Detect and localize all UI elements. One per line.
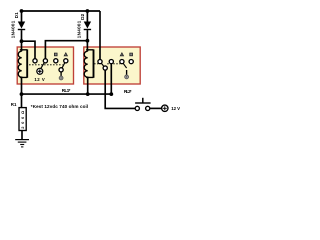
- terminal RL2: [125, 75, 129, 79]
- node R1 top: [20, 92, 24, 96]
- svg-text:RL1*: RL1*: [62, 88, 71, 93]
- wire resistor to ground: [21, 131, 23, 140]
- wire D2 cathode to coil RL2: [86, 30, 88, 50]
- contact circle RL1 common: [59, 68, 63, 72]
- diode D2: [84, 22, 91, 31]
- terminal RL1: [59, 76, 63, 80]
- svg-text:R1: R1: [11, 102, 17, 107]
- dashed linkage RL1: [29, 64, 63, 66]
- wire D2 anode stem: [86, 11, 88, 22]
- contact circle RL1 c1: [33, 59, 37, 63]
- contact circle RL1 NC: [54, 59, 58, 63]
- contact circle RL2 D: [129, 60, 133, 64]
- node coil RL2 bus: [86, 92, 90, 96]
- glyph triangle RL1: [64, 53, 67, 56]
- push button S1: [135, 98, 151, 111]
- wire branch D2 node to RL1 contact c2: [45, 41, 87, 59]
- svg-text:D1: D1: [14, 12, 20, 18]
- svg-text:RL2*: RL2*: [124, 89, 132, 94]
- contact circle RL1 NO: [64, 59, 68, 63]
- wire coil RL2 bottom to bus: [87, 77, 89, 94]
- contact circle RL2 C: [120, 60, 124, 64]
- glyph square RL1: [54, 53, 57, 56]
- contact circle RL2 B: [109, 60, 113, 64]
- coil RL2: [84, 49, 93, 77]
- 12V supply terminal: [162, 105, 168, 111]
- wire RL2 common1 to push button: [105, 70, 135, 108]
- glyph triangle RL2: [120, 53, 123, 56]
- svg-text:12 V: 12 V: [34, 77, 45, 82]
- glyph square RL2: [130, 53, 133, 56]
- relay RL2 box: [84, 47, 140, 84]
- wire top rail: [22, 10, 101, 12]
- contact circle RL2 A: [98, 60, 102, 64]
- 12V supply marker in RL1: [37, 68, 43, 74]
- svg-text:*Kest 12vdc 740 ohm coil: *Kest 12vdc 740 ohm coil: [31, 104, 88, 109]
- contact arm RL2 C to common2: [122, 62, 127, 69]
- wire D1 cathode to coil RL1: [21, 30, 23, 50]
- wire RL2 contact B to bus: [110, 64, 112, 94]
- node D2 top: [86, 9, 90, 13]
- wire rail down to RL2 contact A: [99, 11, 101, 60]
- dashed linkage RL2: [94, 63, 120, 65]
- contact circle RL2 common1: [103, 66, 107, 70]
- svg-text:1N4001: 1N4001: [11, 20, 16, 38]
- contact arm RL2 A to common1: [100, 62, 105, 68]
- node contact B bus: [109, 92, 113, 96]
- bus wire bottom: [22, 93, 112, 95]
- wire branch D1 node to RL1 contact c1: [22, 41, 36, 59]
- diode D1: [18, 22, 25, 31]
- node D1 top: [20, 9, 24, 13]
- wire coil RL1 bottom to bus: [21, 77, 23, 94]
- wire D1 anode stem: [21, 11, 23, 22]
- wire RL1 common to terminal: [60, 72, 62, 76]
- wire RL2 common2 to terminal: [126, 70, 128, 75]
- relay RL1 box: [17, 47, 73, 84]
- coil RL1: [18, 49, 27, 77]
- contact arm RL1 c2 to 12V common: [41, 61, 46, 69]
- svg-text:12 V: 12 V: [171, 106, 180, 111]
- button terminal left: [135, 106, 139, 110]
- button terminal right: [146, 106, 150, 110]
- wire button to 12V: [150, 107, 162, 109]
- node D2 bottom: [86, 39, 90, 43]
- svg-text:1N4001: 1N4001: [76, 20, 81, 38]
- resistor R1: [19, 108, 26, 131]
- contact circle RL1 c2: [43, 59, 47, 63]
- button bridge: [135, 102, 151, 104]
- wire bus to resistor R1: [21, 94, 23, 108]
- node D1 bottom: [20, 39, 24, 43]
- ground: [15, 140, 29, 147]
- button stem: [142, 98, 144, 103]
- svg-text:D2: D2: [80, 14, 86, 20]
- contact arm RL1 NO to common: [61, 61, 66, 70]
